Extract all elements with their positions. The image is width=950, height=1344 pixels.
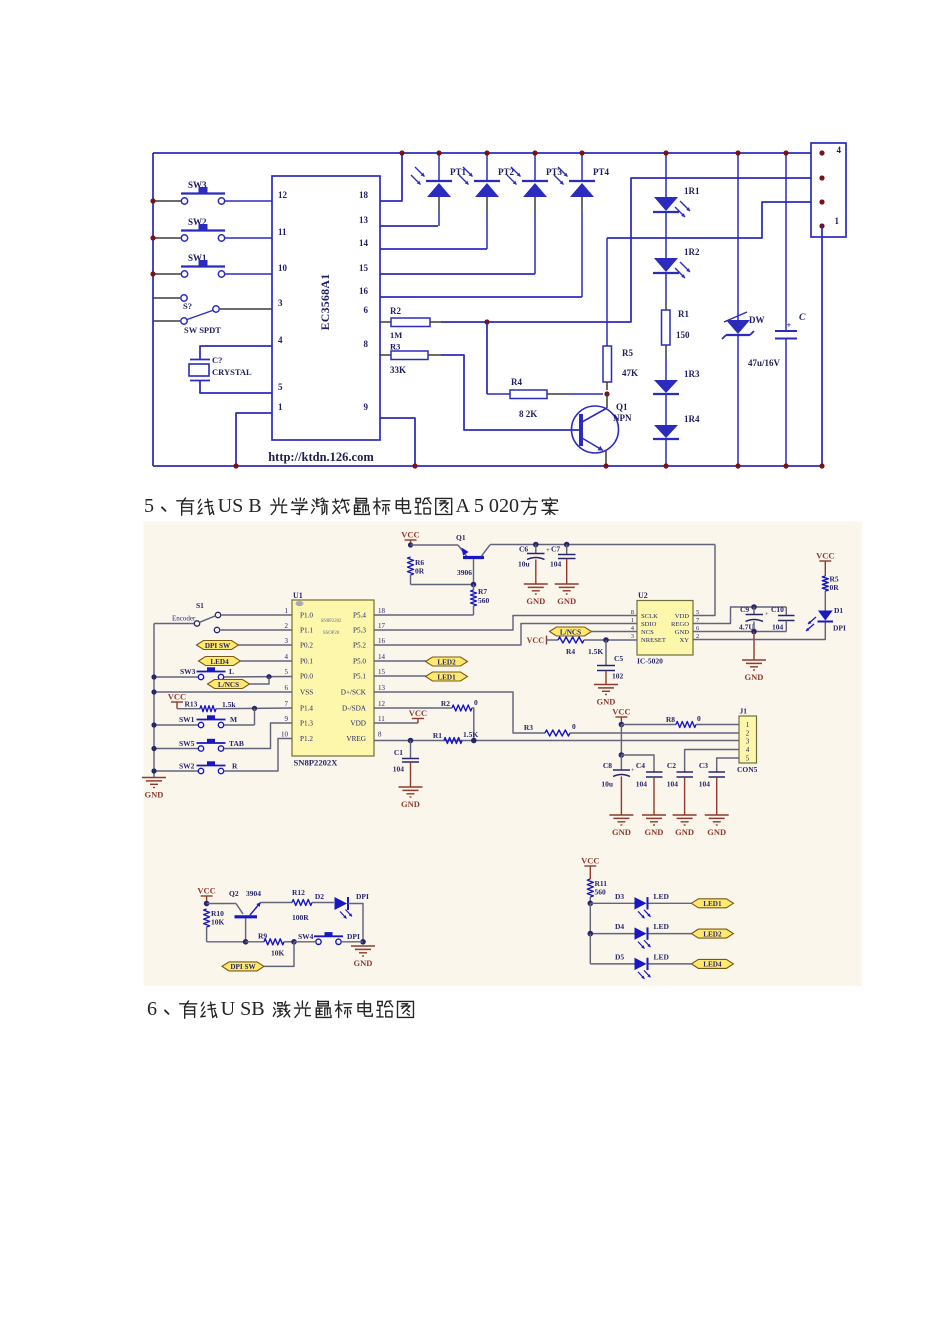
wire L/NCS to NCS	[591, 631, 637, 633]
svg-text:P0.2: P0.2	[300, 642, 313, 650]
svg-text:J1: J1	[740, 707, 748, 716]
resistor R6 0R	[408, 557, 414, 575]
wire VCC to Q2	[207, 903, 236, 905]
svg-text:1R3: 1R3	[684, 369, 700, 379]
wire J1 pin4 to C2	[685, 750, 739, 772]
wire Q1 collector rail	[490, 544, 715, 546]
svg-text:C5: C5	[614, 654, 623, 663]
svg-text:Encoder: Encoder	[172, 615, 196, 623]
wire top rail VDD	[153, 152, 822, 154]
wire pin 14 to PT2	[380, 248, 487, 250]
svg-text:SW SPDT: SW SPDT	[184, 325, 221, 335]
svg-text:4: 4	[746, 746, 750, 754]
svg-text:P5.4: P5.4	[353, 612, 366, 620]
net label LED4 hexagon	[691, 959, 733, 968]
svg-text:+: +	[546, 546, 550, 554]
svg-text:LED: LED	[654, 892, 670, 901]
junction node SW3	[150, 198, 155, 203]
junction node pin18/top rail	[399, 150, 404, 155]
svg-text:8: 8	[364, 339, 369, 349]
svg-text:2: 2	[746, 730, 750, 738]
svg-text:US B: US B	[218, 495, 262, 517]
svg-text:4: 4	[278, 335, 283, 345]
svg-text:1.5K: 1.5K	[463, 730, 478, 739]
net label DPI_SW hexagon	[197, 641, 239, 650]
LED D4	[590, 933, 634, 935]
svg-text:SW1: SW1	[179, 715, 195, 724]
svg-text:R1: R1	[678, 309, 689, 319]
svg-text:104: 104	[667, 780, 679, 789]
ground GND C7	[555, 583, 579, 585]
svg-text:C4: C4	[636, 761, 645, 770]
svg-text:10: 10	[281, 731, 289, 739]
wire VCC column to C8	[620, 725, 622, 756]
junction node SW1	[150, 271, 155, 276]
svg-text:GND: GND	[354, 958, 373, 968]
svg-text:S1: S1	[196, 601, 204, 610]
ground GND left rail	[142, 777, 166, 779]
svg-text:+: +	[765, 611, 769, 618]
LED D1 DPI	[818, 621, 834, 623]
LED 1R1	[654, 197, 678, 211]
ground GND C9/C10	[742, 659, 766, 661]
svg-text:TAB: TAB	[229, 739, 244, 748]
capacitor C4 104	[621, 755, 654, 772]
svg-text:6: 6	[147, 998, 157, 1020]
wire column to D5	[589, 934, 591, 964]
net label L/NCS hexagon	[208, 680, 250, 689]
wire R2 node down to R4	[486, 322, 488, 394]
wire pin 16 to PT4	[380, 296, 582, 298]
wire LED4 to pin4	[240, 660, 292, 662]
wire R8 to J1 pin1	[696, 724, 739, 726]
crystal C?	[200, 346, 272, 359]
svg-text:2: 2	[285, 622, 289, 630]
wire connector pin1 to ground rail	[821, 226, 823, 466]
wire L/NCS riser	[249, 677, 269, 684]
svg-text:104: 104	[699, 780, 711, 789]
svg-text:VCC: VCC	[581, 856, 599, 866]
svg-text:P1.3: P1.3	[300, 720, 313, 728]
svg-text:VDD: VDD	[675, 613, 690, 620]
svg-text:R5: R5	[622, 348, 633, 358]
junction node Q2/R9	[243, 939, 249, 945]
svg-text:GND: GND	[526, 596, 545, 606]
svg-text:15: 15	[378, 668, 386, 676]
photodiode PT3	[534, 153, 536, 180]
wire pin 15 to PT3	[380, 273, 535, 275]
svg-text:XY: XY	[679, 637, 689, 644]
ground GND C6	[524, 583, 548, 585]
junction node Q1 emitter/ground rail	[603, 463, 608, 468]
svg-text:C8: C8	[603, 761, 612, 770]
svg-text:Q2: Q2	[229, 889, 239, 898]
svg-text:SW4: SW4	[298, 932, 314, 941]
diode 1R3	[654, 380, 678, 393]
svg-text:18: 18	[359, 190, 369, 200]
svg-text:1R2: 1R2	[684, 247, 700, 257]
wire D5 to hexagon	[649, 963, 694, 965]
svg-text:CRYSTAL: CRYSTAL	[212, 367, 252, 377]
svg-text:5: 5	[285, 668, 289, 676]
svg-text:560: 560	[478, 596, 490, 605]
svg-text:U1: U1	[293, 591, 303, 600]
svg-text:GND: GND	[145, 790, 164, 800]
svg-text:3: 3	[278, 298, 283, 308]
svg-text:0: 0	[697, 714, 701, 723]
net label LED4 hexagon	[199, 657, 241, 666]
svg-text:P1.4: P1.4	[300, 705, 313, 713]
svg-text:C6: C6	[519, 545, 528, 554]
svg-text:PT4: PT4	[593, 167, 610, 177]
resistor R10 10K	[204, 909, 210, 927]
svg-text:DPI SW: DPI SW	[230, 963, 256, 971]
svg-text:1: 1	[285, 607, 289, 615]
wire left rail	[152, 153, 154, 466]
junction node PT1 top	[436, 150, 441, 155]
junction node D3	[588, 901, 594, 907]
svg-text:GND: GND	[557, 596, 576, 606]
svg-text:S?: S?	[183, 301, 192, 311]
net label LED2 hexagon	[691, 929, 733, 938]
svg-text:M: M	[230, 715, 237, 724]
junction node D4	[588, 931, 594, 937]
wire R2 riser to VREG net	[472, 708, 474, 741]
svg-text:10: 10	[278, 263, 288, 273]
wire R3 to Q1 base	[441, 355, 581, 430]
transistor Q1 NPN	[572, 406, 619, 453]
wire Q2 collector	[245, 919, 247, 942]
svg-text:11: 11	[278, 227, 287, 237]
svg-text:VCC: VCC	[612, 707, 630, 717]
resistor R11 560	[587, 879, 593, 897]
svg-text:R13: R13	[185, 700, 198, 709]
ground GND C1	[399, 786, 423, 788]
svg-text:150: 150	[676, 330, 690, 340]
svg-text:10u: 10u	[601, 780, 613, 789]
svg-text:DPI: DPI	[356, 892, 369, 901]
svg-text:NCS: NCS	[641, 629, 654, 636]
wire D+/SCK to R3	[374, 692, 545, 733]
junction node PT2 top	[484, 150, 489, 155]
svg-text:R3: R3	[390, 342, 400, 352]
wire VCC to Q1 emitter	[411, 544, 459, 546]
capacitor C5 102	[605, 640, 607, 665]
svg-text:10u: 10u	[518, 560, 530, 569]
LED D5	[590, 963, 634, 965]
svg-text:LED2: LED2	[437, 658, 456, 666]
junction node VCC/R10	[204, 901, 210, 907]
svg-text:P1.2: P1.2	[300, 735, 313, 743]
wire VDD to Q1 rail riser	[693, 545, 715, 616]
junction node SW2	[150, 235, 155, 240]
svg-text:Q1: Q1	[616, 402, 628, 412]
ground GND C2	[673, 814, 697, 816]
junction node R13/SW1	[252, 706, 257, 711]
capacitor C7 104	[564, 542, 570, 548]
svg-text:P0.1: P0.1	[300, 658, 313, 666]
svg-text:1.5k: 1.5k	[222, 700, 236, 709]
junction node C9 bottom	[751, 629, 757, 635]
switch S?	[153, 297, 180, 299]
LED 1R2	[654, 258, 678, 272]
svg-text:U2: U2	[638, 591, 648, 600]
svg-text:P5.1: P5.1	[353, 673, 366, 681]
svg-text:SW5: SW5	[179, 739, 195, 748]
net label DPI_SW hexagon (Q2)	[222, 962, 264, 971]
wire SW5 to pin9	[224, 723, 292, 749]
resistor R5	[606, 238, 608, 346]
junction node R2/R1	[471, 738, 477, 744]
svg-text:GND: GND	[645, 827, 664, 837]
svg-text:104: 104	[636, 780, 648, 789]
svg-text:VCC: VCC	[816, 551, 834, 561]
svg-text:SN8P2202: SN8P2202	[321, 619, 342, 624]
capacitor C10 104	[785, 607, 787, 615]
power VCC (VDD pin11)	[374, 722, 418, 724]
svg-text:VCC: VCC	[168, 692, 186, 702]
svg-text:LED2: LED2	[703, 930, 722, 938]
wire REGO to C9/C10 rail	[693, 607, 786, 624]
capacitor C9 4.7U	[753, 607, 755, 614]
wire P5.3 to SCLK	[374, 616, 637, 631]
svg-text:LED4: LED4	[210, 658, 229, 666]
svg-text:9: 9	[285, 715, 289, 723]
wire D2 to SW4 node	[348, 904, 363, 942]
switch terminal P1.1	[214, 627, 219, 632]
capacitor C6 10u	[533, 542, 539, 548]
wire R3 to J1 pin2	[570, 732, 739, 734]
resistor R1	[662, 310, 671, 345]
svg-text:16: 16	[378, 637, 386, 645]
svg-text:L: L	[229, 667, 234, 676]
svg-text:DW: DW	[749, 315, 765, 325]
svg-text:3904: 3904	[246, 889, 261, 898]
wire S1 to pin1	[221, 614, 292, 616]
svg-text:NRESET: NRESET	[641, 637, 666, 644]
svg-text:7: 7	[285, 700, 289, 708]
ground GND C3	[705, 814, 729, 816]
capacitor C1 104	[410, 741, 412, 759]
wire P5.0 to LED2	[374, 660, 427, 662]
net label L/NCS hexagon (U2)	[550, 627, 592, 636]
svg-text:3: 3	[746, 738, 750, 746]
svg-text:16: 16	[359, 286, 369, 296]
wire DPI_SW to pin3	[237, 644, 292, 646]
wire R11 column	[589, 903, 591, 933]
wire DPI_SW to R9 node	[264, 942, 294, 967]
svg-text:P1.1: P1.1	[300, 627, 313, 635]
junction node IR bottom	[663, 463, 668, 468]
svg-text:5: 5	[144, 495, 154, 517]
wire D4 to hexagon	[649, 933, 694, 935]
capacitor C3 104	[709, 771, 726, 773]
svg-text:4: 4	[837, 145, 842, 155]
svg-text:R3: R3	[524, 723, 533, 732]
wire pin 13 to PT1	[380, 225, 438, 227]
svg-text:33K: 33K	[390, 365, 406, 375]
junction node R2/R4	[484, 319, 489, 324]
capacitor C8 10u	[620, 755, 622, 770]
svg-text:18: 18	[378, 607, 386, 615]
svg-text:C3: C3	[699, 761, 708, 770]
svg-text:12: 12	[378, 700, 386, 708]
svg-text:GND: GND	[707, 827, 726, 837]
zener diode DW	[737, 153, 739, 320]
svg-text:LED4: LED4	[703, 961, 722, 969]
svg-text:8 2K: 8 2K	[519, 409, 537, 419]
svg-text:IC-5020: IC-5020	[637, 657, 663, 666]
resistor R5 0R (bottom)	[822, 576, 828, 591]
wire R5 top to connector pin3	[607, 202, 822, 238]
svg-text:A 5 020: A 5 020	[455, 495, 519, 517]
svg-text:NPN: NPN	[613, 413, 632, 423]
svg-text:13: 13	[359, 215, 369, 225]
ground GND C8	[609, 814, 633, 816]
svg-text:VSS: VSS	[300, 689, 313, 697]
resistor R2 0 (bottom)	[374, 707, 452, 709]
svg-text:R4: R4	[511, 377, 522, 387]
junction node IR top	[663, 150, 668, 155]
svg-text:1: 1	[835, 216, 840, 226]
svg-text:R1: R1	[433, 731, 442, 740]
resistor R13 1.5k	[176, 702, 178, 709]
light arrows into PT3	[511, 167, 521, 177]
svg-text:P0.0: P0.0	[300, 673, 313, 681]
wire 1R1 to 1R2	[665, 212, 667, 258]
svg-text:1.5K: 1.5K	[588, 647, 603, 656]
junction node PT4 top	[579, 150, 584, 155]
light arrows into PT1	[415, 167, 425, 177]
svg-text:1R4: 1R4	[684, 414, 700, 424]
svg-text:LED: LED	[654, 922, 670, 931]
svg-text:C7: C7	[551, 545, 560, 554]
junction node PT3 top	[532, 150, 537, 155]
svg-text:17: 17	[378, 622, 386, 630]
svg-text:L/NCS: L/NCS	[218, 681, 239, 689]
resistor R9 10K	[246, 941, 264, 943]
svg-text:D1: D1	[834, 606, 843, 615]
resistor R8 0	[621, 724, 676, 726]
svg-text:0R: 0R	[830, 583, 840, 592]
wire U2-GND pin to caps	[693, 631, 786, 633]
svg-text:D3: D3	[615, 892, 624, 901]
svg-text:D-/SDA: D-/SDA	[342, 705, 367, 713]
wire R1 to 1R3	[665, 358, 667, 380]
svg-text:11: 11	[378, 715, 385, 723]
svg-text:560: 560	[595, 888, 607, 897]
svg-text:3906: 3906	[457, 568, 472, 577]
svg-text:0: 0	[474, 698, 478, 707]
svg-text:VREG: VREG	[346, 735, 366, 743]
wire 1R4 to ground rail	[665, 439, 667, 466]
connector J1 CON5	[739, 716, 757, 763]
svg-text:9: 9	[364, 402, 369, 412]
svg-text:LED1: LED1	[703, 900, 722, 908]
svg-text:6: 6	[285, 684, 289, 692]
junction node VCC/R8	[619, 722, 625, 728]
wire SW1 riser	[254, 708, 256, 725]
svg-text:DPI: DPI	[347, 932, 360, 941]
wire left rail (bottom)	[153, 624, 155, 778]
wire 1R3 to 1R4	[665, 394, 667, 425]
svg-text:L/NCS: L/NCS	[560, 628, 581, 636]
wire bottom ground rail	[153, 465, 822, 467]
ground GND C4	[642, 814, 666, 816]
svg-text:R: R	[232, 762, 238, 771]
svg-text:1M: 1M	[390, 330, 402, 340]
wire P1.1	[220, 629, 292, 631]
net label LED1 hexagon	[691, 899, 733, 908]
junction node C9 top	[751, 604, 757, 610]
svg-text:GND: GND	[675, 827, 694, 837]
svg-text:1: 1	[746, 721, 750, 729]
svg-text:VCC: VCC	[401, 530, 419, 540]
svg-text:EC3568A1: EC3568A1	[318, 274, 332, 331]
svg-text:100R: 100R	[292, 913, 309, 922]
IC U2 IC-5020	[637, 601, 693, 656]
photodiode PT4	[581, 153, 583, 180]
svg-text:R2: R2	[390, 306, 401, 316]
junction node VCC/R6	[408, 542, 413, 547]
svg-text:SW2: SW2	[179, 762, 195, 771]
svg-text:GND: GND	[745, 672, 764, 682]
junction node R4/R5/Q1	[604, 391, 609, 396]
svg-text:5: 5	[746, 755, 750, 763]
junction node pin9/rail	[412, 463, 417, 468]
svg-text:VCC: VCC	[527, 636, 545, 645]
svg-text:LED1: LED1	[437, 673, 456, 681]
resistor R7 560	[473, 585, 475, 591]
wire J1 pin5 to C3	[717, 758, 739, 772]
svg-text:http://ktdn.126.com: http://ktdn.126.com	[268, 450, 374, 464]
svg-text:102: 102	[612, 672, 624, 681]
junction node C8/C4	[619, 752, 625, 758]
junction node D2/SW4/GND	[360, 939, 366, 945]
junction node NRESET/C5	[603, 637, 609, 643]
svg-text:C1: C1	[394, 748, 403, 757]
wire VREG net	[374, 740, 739, 742]
svg-text:GND: GND	[675, 629, 690, 636]
junction node Q1 collector/R7	[471, 582, 477, 588]
wire P5.2 to SDIO	[374, 624, 637, 646]
svg-text:13: 13	[378, 684, 386, 692]
wire D3 to hexagon	[649, 902, 694, 904]
connector CN1	[811, 143, 846, 237]
svg-text:Q1: Q1	[456, 533, 466, 542]
wire R2 to connector pin2	[441, 178, 822, 322]
svg-text:U SB: U SB	[221, 998, 265, 1020]
svg-text:47u/16V: 47u/16V	[748, 358, 781, 368]
svg-text:D4: D4	[615, 922, 624, 931]
svg-text:6: 6	[364, 305, 369, 315]
svg-text:C10: C10	[771, 605, 784, 614]
wire R6 to R7 node	[411, 584, 474, 586]
svg-text:SSOP28: SSOP28	[323, 631, 340, 636]
svg-text:0R: 0R	[415, 567, 425, 576]
ground GND C5	[594, 684, 618, 686]
svg-text:SN8P2202X: SN8P2202X	[294, 758, 339, 768]
svg-text:P5.2: P5.2	[353, 642, 366, 650]
svg-text:0: 0	[572, 722, 576, 731]
svg-text:D+/SCK: D+/SCK	[341, 689, 367, 697]
diode 1R4	[654, 425, 678, 438]
svg-text:47K: 47K	[622, 368, 638, 378]
svg-text:SW3: SW3	[180, 667, 196, 676]
svg-text:D2: D2	[315, 892, 324, 901]
wire VSS to rail	[154, 691, 292, 693]
svg-text:R8: R8	[666, 715, 675, 724]
